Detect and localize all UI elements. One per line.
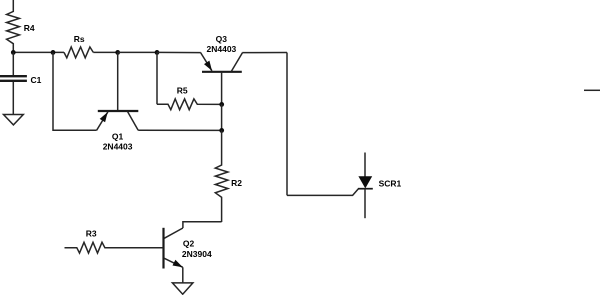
wire top row to Q3 emitter bbox=[157, 51, 201, 53]
svg-text:Q1: Q1 bbox=[112, 131, 124, 141]
svg-text:R4: R4 bbox=[24, 23, 35, 33]
svg-text:Q2: Q2 bbox=[183, 239, 195, 249]
junction dot at Q1 collector node bbox=[219, 128, 224, 133]
svg-text:Rs: Rs bbox=[74, 34, 85, 44]
resistor R2 bbox=[215, 130, 228, 222]
resistor R4 bbox=[7, 0, 20, 52]
svg-text:C1: C1 bbox=[31, 75, 42, 85]
transistor Q2 (NPN 2N3904) bbox=[164, 228, 183, 269]
junction dot at R5 branch node bbox=[155, 50, 160, 55]
junction dot at Q1 base node bbox=[115, 50, 120, 55]
junction dot at R4/C1 node bbox=[11, 50, 16, 55]
resistor R3 bbox=[65, 242, 164, 253]
wire Q3 base down bbox=[221, 72, 223, 105]
wire Q3 collector to right bend bbox=[242, 52, 287, 54]
ground under C1 bbox=[4, 115, 24, 125]
wire top row to R5 node bbox=[118, 51, 158, 53]
svg-text:R5: R5 bbox=[177, 85, 188, 95]
wire Rs to Q1-base node bbox=[93, 51, 117, 53]
wire to SCR gate bbox=[287, 189, 358, 196]
resistor Rs bbox=[64, 47, 93, 58]
junction dot at x53 node bbox=[51, 50, 56, 55]
svg-text:R2: R2 bbox=[231, 178, 242, 188]
wire Q2 emitter down bbox=[182, 267, 184, 283]
svg-text:2N4403: 2N4403 bbox=[103, 141, 133, 151]
svg-text:2N4403: 2N4403 bbox=[207, 44, 237, 54]
junction dot at R5/Q3 base node bbox=[219, 102, 224, 107]
SCR1 thyristor bbox=[358, 153, 373, 219]
wire R5 left branch vertical bbox=[156, 52, 158, 104]
wire Q1 base vertical bbox=[117, 52, 119, 111]
svg-text:2N3904: 2N3904 bbox=[182, 249, 212, 259]
svg-text:Q3: Q3 bbox=[216, 34, 228, 44]
capacitor C1 bbox=[12, 52, 14, 75]
svg-text:R3: R3 bbox=[86, 229, 97, 239]
transistor Q3 (PNP 2N4403) bbox=[201, 53, 243, 72]
wire right vertical drop bbox=[286, 53, 288, 196]
wire Q1 collector to R2 node bbox=[138, 129, 222, 131]
ground under Q2 bbox=[172, 283, 193, 294]
wire stub right edge bbox=[584, 89, 600, 91]
wire node top-left horizontal bbox=[13, 51, 64, 53]
wire R2 bottom to Q2 collector bbox=[183, 222, 222, 228]
resistor R5 bbox=[157, 99, 222, 110]
transistor Q1 (PNP 2N4403) bbox=[97, 111, 139, 130]
wire base node down to collector node bbox=[221, 104, 223, 130]
svg-text:SCR1: SCR1 bbox=[379, 178, 402, 188]
wire left branch down from x53 node to Q1 emitter bbox=[53, 52, 97, 130]
